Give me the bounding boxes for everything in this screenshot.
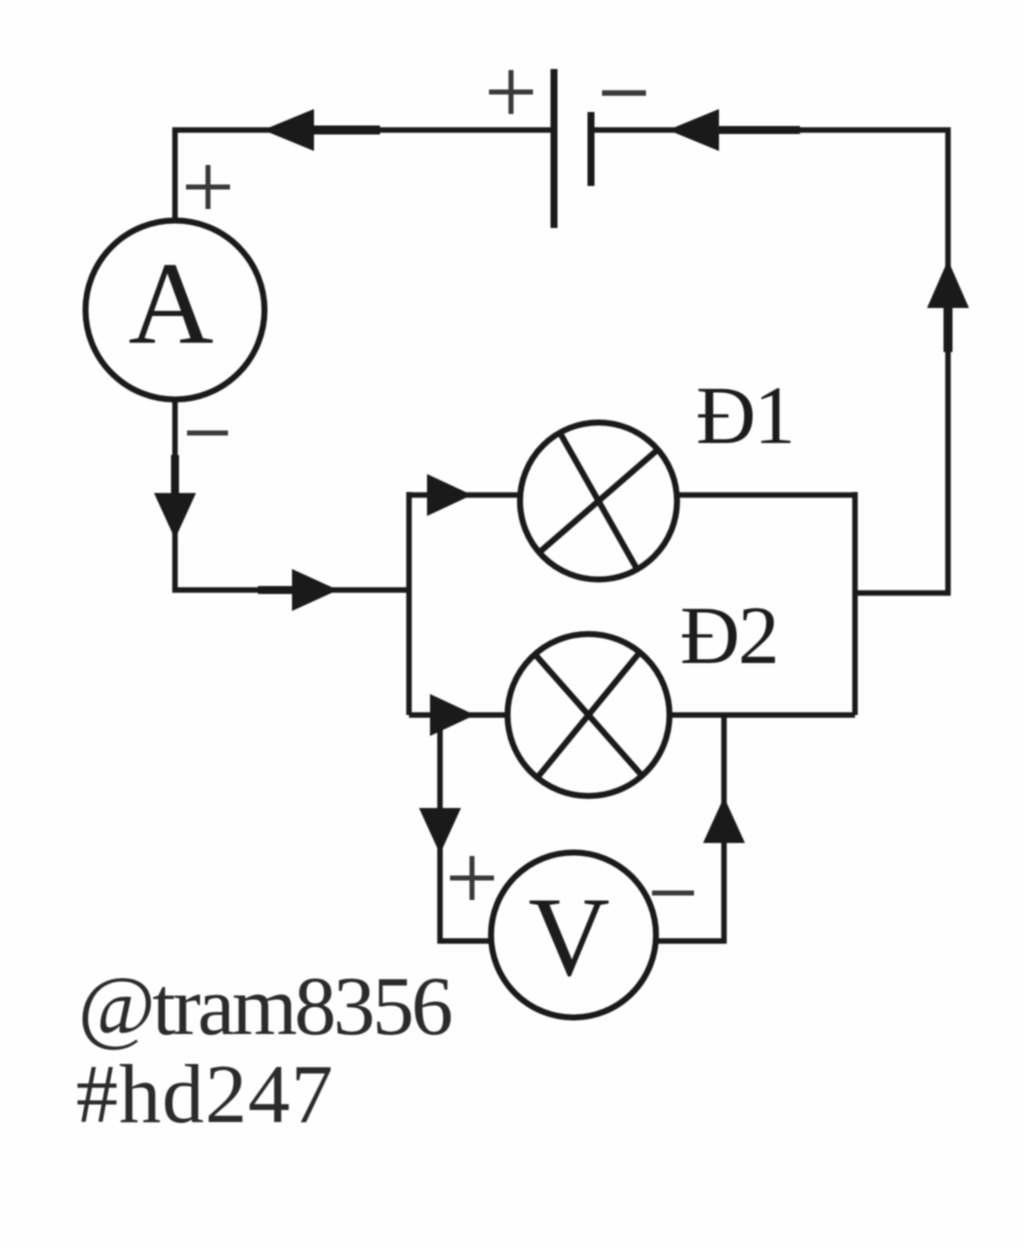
wire top branch left (node to lamp D1) [409,492,523,498]
wire top branch right (lamp D1 to right branch) [674,492,855,498]
current arrow on bottom branch (right) [430,694,475,736]
battery B1 positive long plate [551,69,558,228]
wire top-right segment (right corner to battery -) with right vertical [591,130,948,593]
current arrow on bottom horizontal wire (right) [258,569,338,611]
svg-text:Đ2: Đ2 [680,589,777,681]
wire right branch vertical (parallel node right) [852,492,858,715]
svg-text:#hd247: #hd247 [76,1048,334,1141]
wire top-left segment (battery + to ammeter +) [175,130,551,219]
svg-text:V: V [528,875,610,1000]
lamp D2 circle [508,634,670,796]
wire voltmeter left lead [440,715,492,941]
wire bottom branch right (lamp D2 to right branch) [670,712,855,718]
svg-text:Đ1: Đ1 [696,369,793,461]
label + battery positive [489,70,533,114]
current arrow below ammeter (down) [154,455,196,539]
wire voltmeter right lead [655,715,724,941]
voltmeter V circle [491,853,656,1018]
svg-text:@tram8356: @tram8356 [78,960,451,1053]
wire bottom branch left (node to lamp D2) [409,712,508,718]
lamp D2 cross [536,653,642,777]
current arrow on right vertical wire (up) [927,260,969,352]
current arrow on top-right wire [668,109,800,151]
label - voltmeter [652,891,694,896]
ammeter A circle [86,221,265,400]
label + voltmeter [450,856,494,900]
current arrow on voltmeter left lead (down) [419,808,461,854]
svg-text:A: A [128,238,213,369]
label - battery negative [602,90,646,96]
current arrow on top branch (right) [427,474,472,516]
current arrow on top-left wire [263,109,380,151]
wire left branch vertical (parallel node left) [406,492,412,715]
wire ammeter - down to bottom-left corner then right to node [175,401,409,590]
label + ammeter [186,165,230,209]
lamp D1 cross [540,433,658,569]
label - ammeter [187,431,228,436]
lamp D1 circle [520,423,677,580]
battery B1 negative short plate [588,112,595,186]
current arrow on voltmeter right lead (up) [703,797,745,843]
